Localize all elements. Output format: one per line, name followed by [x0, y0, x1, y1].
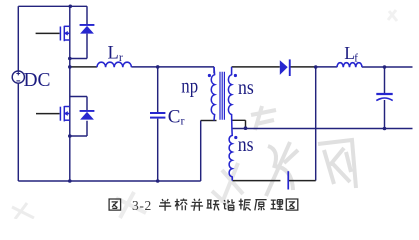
svg-text:3-2: 3-2	[132, 198, 152, 213]
wire ns1 top to D1 anode	[232, 66, 280, 68]
svg-text:np: np	[181, 76, 198, 98]
wire ns2 bottom to D2 anode	[232, 180, 280, 182]
polarity dot ns lower	[234, 136, 237, 139]
wire Q2 gate lead	[36, 113, 60, 115]
node Q1 source / D3 anode	[68, 57, 72, 61]
wire Lf to output terminal	[362, 66, 413, 68]
svg-text:ns: ns	[238, 134, 254, 156]
wire np bottom return	[200, 121, 202, 182]
node Lr-Cr-np junction	[156, 65, 160, 69]
wire body-diode branch of Q2	[70, 97, 87, 137]
wire Cr branch vertical	[157, 67, 159, 181]
transformer T1 secondary winding ns (upper)	[228, 67, 231, 129]
wire body-diode branch of Q1	[70, 6, 87, 58]
wire half-bridge vertical (Q1 drain to Q2 source)	[69, 6, 71, 181]
svg-text:DC: DC	[24, 69, 51, 91]
wire rectifier junction to Lf	[316, 66, 337, 68]
node Cf bottom	[383, 127, 387, 131]
transformer T1 core	[220, 72, 224, 120]
node Q2 source / D4 anode	[68, 134, 72, 138]
wire top rail	[18, 5, 87, 7]
svg-text:Lr: Lr	[108, 44, 123, 65]
transformer T1 primary winding np	[211, 67, 214, 121]
node Cr at bottom rail	[156, 179, 160, 183]
node half-bridge midpoint	[68, 65, 72, 69]
DC voltage source V1	[12, 71, 24, 83]
diode D4 (Q2 body diode)	[80, 110, 95, 120]
node Cf top	[383, 65, 387, 69]
wire Lr to np top	[132, 67, 215, 73]
MAIN CIRCUIT	[18, 6, 412, 181]
inductor Lr (resonant)	[97, 62, 131, 67]
wire D2 cathode	[289, 180, 316, 182]
svg-text:Lf: Lf	[344, 43, 358, 64]
node Q2 at bottom rail	[68, 179, 72, 183]
wire left rail (DC source branch)	[17, 6, 19, 181]
transistor Q2 (lower MOSFET)	[60, 106, 69, 121]
wire D1 cathode to rectifier junction	[290, 66, 316, 68]
wire D2 cathode vertical to rectifier junction	[315, 67, 317, 181]
svg-text:ns: ns	[238, 77, 254, 99]
svg-text:Cr: Cr	[168, 106, 185, 127]
diode D3 (Q1 body diode)	[80, 24, 95, 34]
polarity dot np	[208, 74, 211, 77]
diode D2 (second rectifier, cathode bar)	[287, 171, 289, 189]
capacitor Cr (resonant)	[150, 113, 165, 118]
wire secondary return rail	[232, 128, 412, 130]
node rectifier output junction	[314, 65, 318, 69]
node Q1 drain at top rail	[69, 5, 73, 9]
wire np winding bottom	[201, 120, 217, 122]
polarity dot ns upper	[234, 74, 237, 77]
wire bottom rail	[18, 180, 200, 182]
capacitor Cf (output filter, polarized)	[376, 94, 392, 101]
wire Q1 gate lead	[36, 32, 60, 34]
transformer T1 secondary winding ns (lower)	[229, 129, 232, 181]
wire midpoint node to Lr	[70, 66, 97, 68]
wire ns1 bottom to center tap	[232, 120, 246, 128]
inductor Lf (output filter)	[337, 63, 362, 68]
node center tap	[244, 126, 248, 130]
caption 图 3-2 半桥并联谐振原理图 (vector strokes)	[109, 199, 298, 211]
transistor Q1 (upper MOSFET)	[60, 26, 69, 41]
wire output capacitor branch	[384, 67, 386, 129]
diode D1 (output rectifier)	[280, 59, 291, 76]
